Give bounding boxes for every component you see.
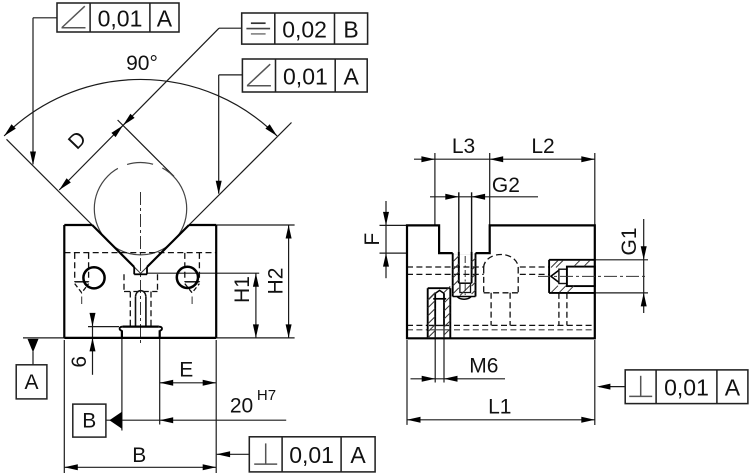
svg-text:H1: H1 [231,276,254,303]
svg-text:G1: G1 [618,227,641,255]
svg-text:M6: M6 [469,354,498,377]
svg-text:0,01: 0,01 [289,442,334,468]
svg-text:A: A [157,5,173,31]
svg-text:0,01: 0,01 [664,375,709,401]
svg-text:0,01: 0,01 [283,63,328,89]
svg-text:L2: L2 [531,135,554,158]
svg-text:B: B [82,409,96,432]
svg-text:20: 20 [230,394,253,417]
svg-text:F: F [361,233,384,246]
svg-text:G2: G2 [492,174,520,197]
svg-text:A: A [725,375,741,401]
svg-text:E: E [179,358,193,381]
svg-text:A: A [350,442,366,468]
svg-text:6: 6 [68,356,91,368]
svg-text:L1: L1 [488,396,511,419]
svg-text:A: A [24,371,38,394]
svg-text:0,02: 0,02 [282,16,327,42]
svg-text:90°: 90° [126,52,158,75]
svg-text:0,01: 0,01 [98,5,143,31]
svg-text:A: A [344,63,360,89]
svg-text:B: B [132,444,146,467]
svg-text:L3: L3 [452,135,475,158]
svg-text:H7: H7 [257,387,276,404]
svg-text:B: B [343,16,358,42]
svg-text:H2: H2 [264,268,287,295]
